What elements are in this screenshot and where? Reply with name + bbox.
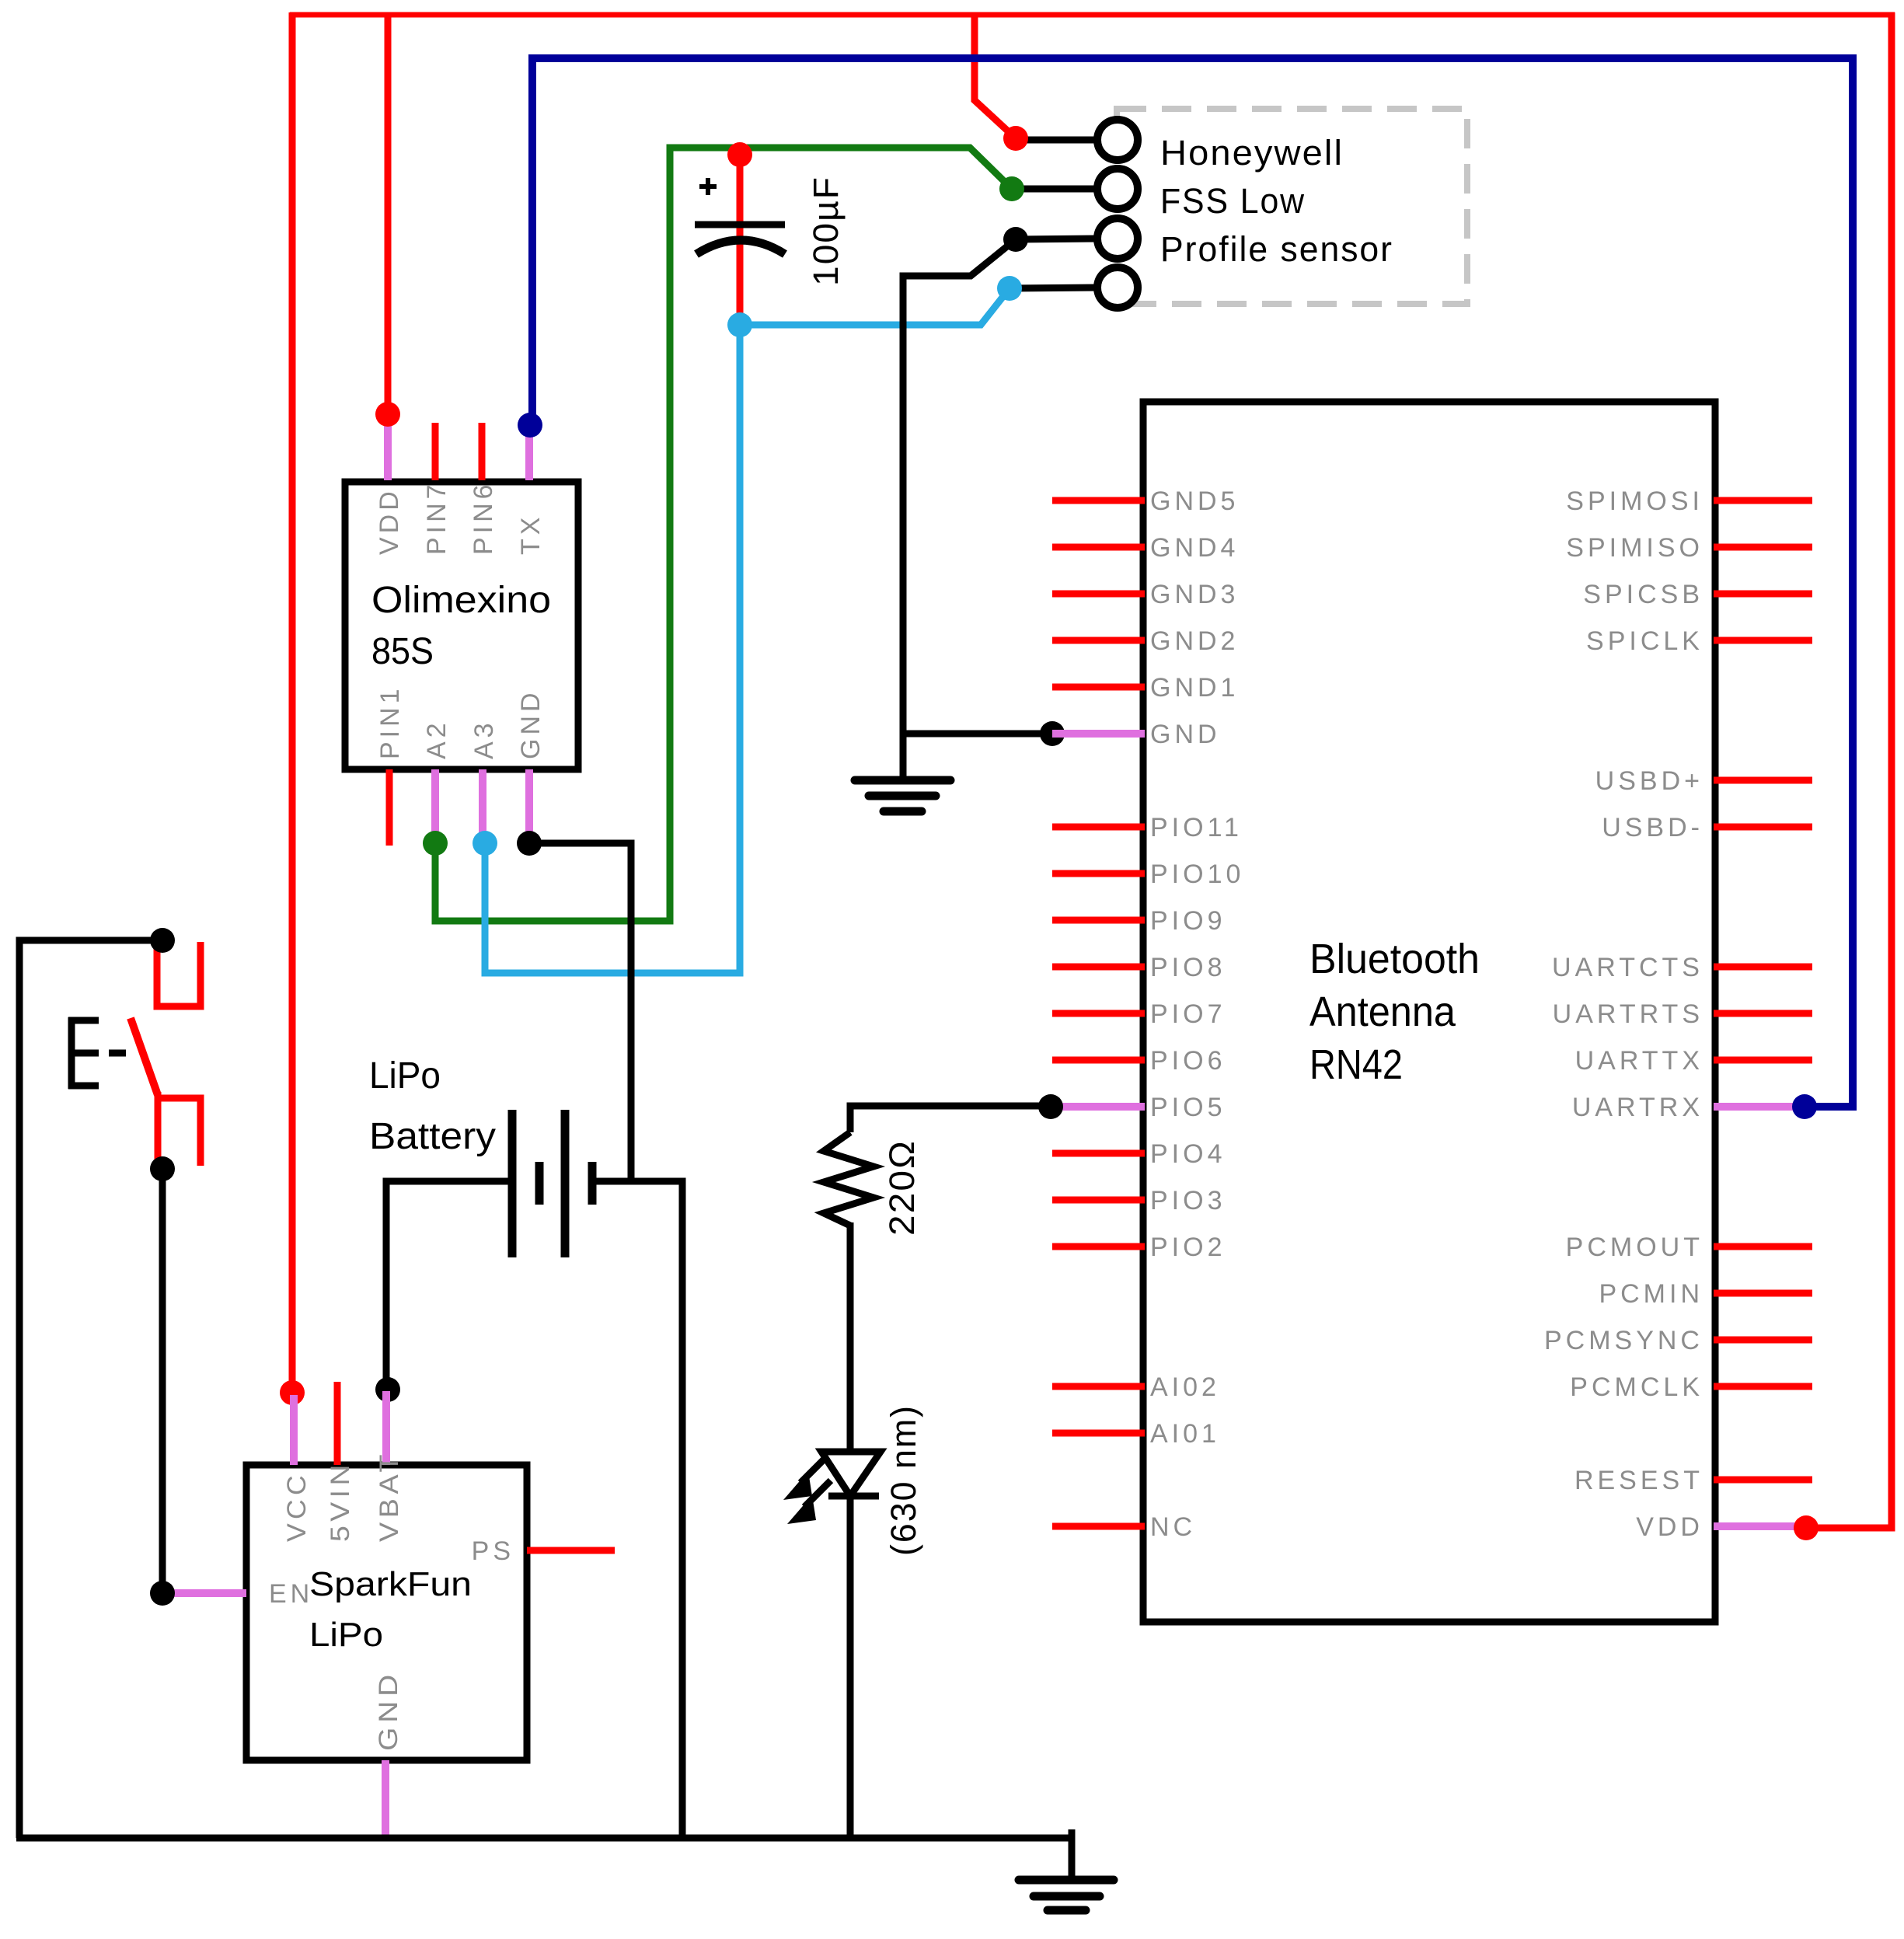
junction dot black Honeywell pin3 (1003, 227, 1028, 252)
Bluetooth RN42 box U1 (1143, 402, 1715, 1622)
RN42 left pin PIO3 (1052, 1186, 1226, 1215)
Honeywell pin2 wire (1012, 186, 1098, 193)
junction dot red Honeywell pin1 (1003, 126, 1028, 151)
junction dot black switch top (150, 928, 175, 953)
capacitor C1 plus sign (699, 178, 717, 195)
wire black Olimexino GND to battery minus (529, 843, 631, 1181)
svg-text:TX: TX (516, 514, 546, 555)
Honeywell sensor dashed outline (1117, 109, 1467, 304)
wire black Honeywell pin3 to ground (903, 239, 1016, 780)
RN42 left pin PIO2 (1052, 1233, 1226, 1262)
svg-text:A2: A2 (422, 719, 452, 759)
wire dark blue vertical to Olimexino TX (528, 54, 536, 425)
svg-text:GND: GND (516, 689, 546, 759)
junction dot black PIO5 (1038, 1094, 1063, 1119)
RN42 left pin PIO5 (1051, 1093, 1226, 1122)
RN42 left pin NC (1052, 1512, 1196, 1542)
svg-text:VDD: VDD (1636, 1512, 1703, 1542)
switch S1 frame E shape (68, 1017, 126, 1089)
wire red left vertical (VCC rail) (289, 12, 296, 1393)
junction dot black SparkFun EN (150, 1581, 175, 1606)
svg-text:(630 nm): (630 nm) (884, 1404, 923, 1556)
svg-text:VDD: VDD (375, 487, 404, 555)
svg-text:220Ω: 220Ω (882, 1139, 922, 1236)
RN42 right pin VDD (1636, 1512, 1806, 1542)
RN42 left pin GND2 (1052, 626, 1239, 656)
svg-text:PIO6: PIO6 (1150, 1046, 1226, 1076)
svg-text:GND4: GND4 (1150, 533, 1239, 563)
RN42 left pin AI01 (1052, 1419, 1220, 1449)
svg-text:85S: 85S (371, 631, 434, 672)
svg-text:UARTTX: UARTTX (1575, 1046, 1703, 1076)
RN42 left pin PIO6 (1052, 1046, 1226, 1076)
junction dot black switch bottom (150, 1156, 175, 1181)
svg-text:PIO8: PIO8 (1150, 953, 1226, 982)
svg-text:VBAT: VBAT (375, 1450, 404, 1542)
svg-text:A3: A3 (469, 719, 499, 759)
svg-text:LiPo: LiPo (309, 1616, 383, 1654)
svg-text:GND: GND (374, 1670, 403, 1751)
Honeywell pin1 circle (1097, 120, 1138, 160)
RN42 left pin PIO7 (1052, 999, 1226, 1029)
svg-text:UARTRTS: UARTRTS (1553, 999, 1703, 1029)
svg-text:SPICSB: SPICSB (1583, 580, 1703, 609)
svg-text:USBD-: USBD- (1602, 813, 1703, 842)
battery BT1 plate short 2 (588, 1162, 597, 1205)
Olimexino title text (371, 580, 551, 672)
junction dot light blue Olimexino A3 (473, 831, 497, 856)
wire green A2 net (435, 148, 1012, 921)
RN42 left pin GND3 (1052, 580, 1239, 609)
svg-text:PIO4: PIO4 (1150, 1139, 1226, 1169)
Honeywell pin4 circle (1097, 267, 1138, 308)
Olimexino pin VDD stub (384, 414, 392, 480)
svg-text:PS: PS (472, 1536, 514, 1566)
svg-text:PIO11: PIO11 (1150, 813, 1243, 842)
RN42 right pin UARTTX (1575, 1046, 1812, 1076)
resistor R1 220ohm zigzag (824, 1132, 874, 1226)
LED D1 triangle (821, 1452, 881, 1496)
RN42 right pin UARTCTS (1552, 953, 1812, 982)
Olimexino pin PIN7 stub (432, 423, 439, 480)
SparkFun LiPo box U3 (246, 1465, 527, 1760)
junction dot black RN42 GND (1040, 721, 1065, 746)
svg-text:PIN6: PIN6 (469, 480, 498, 555)
RN42 left pin PIO11 (1052, 813, 1243, 842)
wire black LED cathode to ground rail (847, 1493, 854, 1838)
svg-text:GND2: GND2 (1150, 626, 1239, 656)
Honeywell pin1 wire (1016, 137, 1098, 144)
RN42 right pin SPIMOSI (1566, 486, 1812, 516)
junction dot black Olimexino GND (517, 831, 542, 856)
wire red top power rail (290, 12, 1895, 18)
junction dot dark blue RN42 UARTRX (1792, 1094, 1817, 1119)
wire black battery negative lead (596, 1181, 682, 1838)
svg-text:FSS Low: FSS Low (1160, 181, 1306, 221)
battery BT1 plate long 1 (508, 1110, 517, 1257)
svg-text:UARTCTS: UARTCTS (1552, 953, 1703, 982)
svg-text:SPICLK: SPICLK (1586, 626, 1703, 656)
switch S1 red lever (131, 1018, 158, 1095)
svg-text:PIN7: PIN7 (422, 480, 452, 555)
svg-text:GND: GND (1150, 720, 1221, 749)
svg-text:Battery: Battery (369, 1116, 496, 1157)
svg-text:5VIN: 5VIN (326, 1460, 355, 1542)
wire red right vertical (to RN42 VDD) (1806, 12, 1892, 1528)
RN42 left pin PIO9 (1052, 906, 1226, 936)
LED D1 emission arrows (783, 1456, 831, 1524)
svg-text:GND5: GND5 (1150, 486, 1239, 516)
svg-text:PIO2: PIO2 (1150, 1233, 1226, 1262)
RN42 left pin GND4 (1052, 533, 1239, 563)
svg-text:PCMIN: PCMIN (1599, 1279, 1703, 1309)
svg-text:UARTRX: UARTRX (1572, 1093, 1703, 1122)
RN42 right pin PCMCLK (1570, 1372, 1812, 1402)
Honeywell pin3 circle (1097, 218, 1138, 259)
SparkFun pin PS stub (527, 1547, 615, 1554)
svg-text:PCMCLK: PCMCLK (1570, 1372, 1703, 1402)
wire black bottom ground rail (16, 1835, 1075, 1842)
svg-text:AI02: AI02 (1150, 1372, 1220, 1402)
Honeywell pin2 circle (1097, 169, 1138, 209)
wire red capacitor branch (737, 155, 744, 325)
wire black branch to RN42 GND (903, 731, 1052, 738)
wire black switch top to left rail (19, 940, 162, 1838)
svg-text:SparkFun: SparkFun (309, 1565, 472, 1603)
junction dot light blue cap bottom (727, 312, 752, 337)
svg-text:PIO7: PIO7 (1150, 999, 1226, 1029)
SparkFun title text (309, 1565, 472, 1654)
wire red drop to Honeywell pin1 (975, 12, 1016, 138)
ground symbol near RN42 GND (855, 780, 950, 811)
svg-text:RN42: RN42 (1309, 1041, 1403, 1088)
RN42 left pin PIO4 (1052, 1139, 1226, 1169)
svg-text:GND3: GND3 (1150, 580, 1239, 609)
RN42 title text (1309, 936, 1480, 1088)
RN42 right pin UARTRTS (1553, 999, 1812, 1029)
RN42 right pin SPICSB (1583, 580, 1812, 609)
junction dot red SparkFun VCC (280, 1380, 305, 1405)
junction dot dark blue Olimexino TX (518, 413, 542, 438)
switch S1 upper red contact hook (157, 942, 201, 1006)
svg-text:Olimexino: Olimexino (371, 580, 551, 621)
Honeywell pin4 wire (1010, 288, 1098, 288)
SparkFun pin GND stub (382, 1760, 389, 1838)
Olimexino pin A2 stub (431, 769, 439, 843)
RN42 right pin USBD+ (1595, 766, 1812, 796)
RN42 right pin SPICLK (1586, 626, 1812, 656)
svg-text:SPIMISO: SPIMISO (1566, 533, 1703, 563)
svg-text:PIO3: PIO3 (1150, 1186, 1226, 1215)
junction dot red Olimexino VDD (375, 402, 400, 427)
junction dot green Honeywell pin2 (999, 176, 1024, 201)
ground symbol bottom right bars (1019, 1880, 1114, 1910)
RN42 right pin PCMSYNC (1544, 1326, 1812, 1355)
svg-text:USBD+: USBD+ (1595, 766, 1703, 796)
svg-text:Bluetooth: Bluetooth (1309, 936, 1480, 982)
switch S1 lower red contact hook (155, 1092, 162, 1163)
battery BT1 plate short 1 (535, 1162, 544, 1205)
Olimexino pin GND stub (525, 769, 533, 843)
RN42 left pin PIO8 (1052, 953, 1226, 982)
svg-text:PCMOUT: PCMOUT (1566, 1233, 1703, 1262)
Olimexino pin TX stub (525, 425, 533, 480)
junction dot red RN42 VDD (1794, 1515, 1819, 1540)
LiPo battery BT1 label (369, 1055, 496, 1157)
svg-text:PIN1: PIN1 (375, 685, 405, 759)
capacitor C1 bottom curved plate (696, 240, 785, 254)
wire black PIO5 to resistor (850, 1106, 1051, 1132)
junction dot red cap top (727, 142, 752, 167)
svg-text:Honeywell: Honeywell (1160, 133, 1344, 173)
RN42 right pin RESEST (1574, 1466, 1812, 1495)
wire black resistor to LED (847, 1222, 854, 1452)
Olimexino pin A3 stub (479, 769, 486, 843)
svg-text:100µF: 100µF (806, 176, 846, 286)
LED D1 cathode bar (828, 1493, 879, 1500)
Olimexino pin PIN6 stub (479, 423, 486, 480)
RN42 right pin UARTRX (1572, 1093, 1805, 1122)
SparkFun pin 5VIN stub (334, 1382, 341, 1465)
Honeywell label text (1160, 133, 1393, 269)
SparkFun pin EN wire (162, 1589, 246, 1597)
Honeywell pin3 wire (1016, 239, 1098, 239)
RN42 left pin GND (1052, 720, 1221, 749)
wire dark blue UARTTX net horizontal (532, 58, 1853, 1107)
svg-text:PIO9: PIO9 (1150, 906, 1226, 936)
wire black battery positive lead (386, 1181, 508, 1390)
junction dot green Olimexino A2 (423, 831, 448, 856)
wire red vertical to Olimexino VDD (385, 12, 392, 414)
junction dot light blue Honeywell pin4 (997, 276, 1022, 301)
battery BT1 plate long 2 (561, 1110, 570, 1257)
RN42 right pin PCMOUT (1566, 1233, 1812, 1262)
RN42 left pin AI02 (1052, 1372, 1220, 1402)
SparkFun pin VCC stub (290, 1395, 298, 1465)
svg-text:RESEST: RESEST (1574, 1466, 1703, 1495)
ground symbol bottom right stub (1069, 1829, 1076, 1880)
Olimexino pin PIN1 stub (386, 769, 393, 846)
RN42 right pin USBD- (1602, 813, 1812, 842)
RN42 left pin GND1 (1052, 673, 1239, 703)
RN42 right pin SPIMISO (1566, 533, 1812, 563)
svg-text:AI01: AI01 (1150, 1419, 1220, 1449)
RN42 left pin GND5 (1052, 486, 1239, 516)
svg-text:PIO10: PIO10 (1150, 860, 1244, 889)
svg-text:Antenna: Antenna (1309, 989, 1456, 1035)
svg-text:GND1: GND1 (1150, 673, 1239, 703)
junction dot black battery plus (375, 1377, 400, 1402)
RN42 left pin PIO10 (1052, 860, 1244, 889)
SparkFun pin VBAT stub (382, 1391, 390, 1465)
svg-text:VCC: VCC (282, 1471, 312, 1542)
Olimexino 85S box U2 (345, 482, 578, 769)
capacitor C1 top plate (695, 221, 785, 228)
svg-text:Profile sensor: Profile sensor (1160, 229, 1393, 269)
svg-text:PIO5: PIO5 (1150, 1093, 1226, 1122)
svg-text:LiPo: LiPo (369, 1055, 441, 1097)
wire light blue A3 net (485, 288, 1010, 973)
svg-text:PCMSYNC: PCMSYNC (1544, 1326, 1703, 1355)
wire black switch bottom to EN (159, 1169, 166, 1593)
RN42 right pin PCMIN (1599, 1279, 1812, 1309)
svg-text:EN: EN (269, 1579, 313, 1609)
svg-text:SPIMOSI: SPIMOSI (1566, 486, 1703, 516)
svg-text:NC: NC (1150, 1512, 1196, 1542)
